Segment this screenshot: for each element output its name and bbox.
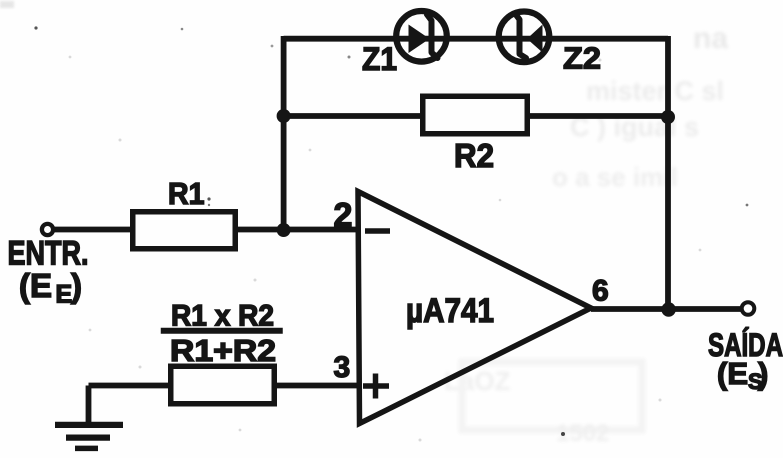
svg-text:µA741: µA741 (406, 292, 494, 330)
svg-text:(E: (E (19, 267, 52, 304)
svg-text:LaOZ: LaOZ (444, 366, 511, 396)
svg-text:Z1: Z1 (362, 41, 397, 77)
svg-text:3: 3 (334, 351, 351, 384)
svg-text:6: 6 (592, 275, 609, 308)
svg-text:(E: (E (717, 356, 748, 391)
svg-text:E: E (56, 281, 73, 309)
svg-text:mister C sl: mister C sl (586, 76, 724, 106)
svg-text:R1 x R2: R1 x R2 (171, 300, 274, 333)
svg-text:2: 2 (334, 197, 353, 235)
svg-text:o a se imil: o a se imil (552, 162, 678, 192)
svg-text:R1+R2: R1+R2 (170, 334, 276, 368)
svg-text:R2: R2 (454, 137, 494, 174)
svg-text:): ) (71, 267, 82, 304)
svg-text:Z2: Z2 (563, 41, 601, 76)
svg-text:R1: R1 (168, 177, 205, 211)
svg-text:): ) (758, 356, 768, 391)
svg-text:na: na (693, 22, 728, 55)
